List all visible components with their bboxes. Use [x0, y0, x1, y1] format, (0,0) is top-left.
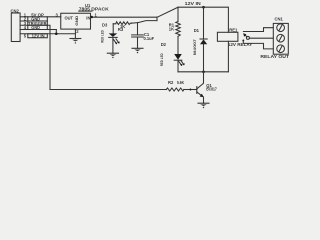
resistor R2: [166, 88, 184, 91]
terminal screw 2: [277, 34, 285, 42]
svg-text:OUT: OUT: [65, 16, 74, 21]
wire U1 GND pin: [74, 29, 76, 38]
relay contact arm arrow: [245, 35, 247, 37]
wire pole to CN1 middle: [249, 37, 273, 39]
wire NO to CN1 bottom: [243, 41, 273, 49]
svg-text:RE1: RE1: [229, 28, 238, 33]
svg-text:RED LED: RED LED: [160, 53, 164, 66]
net frame row5: [28, 34, 48, 38]
transistor Q1 BC817: [197, 72, 204, 103]
wire R2 to Q1 base: [184, 89, 191, 91]
svg-text:R2: R2: [168, 80, 174, 85]
net frame row3 TRIGGER: [28, 21, 48, 25]
svg-text:12V IN: 12V IN: [32, 33, 45, 38]
ground below Q1: [198, 103, 209, 108]
svg-text:M4007: M4007: [193, 39, 197, 55]
net frame row4: [27, 25, 29, 29]
wire U1 IN to right: [91, 16, 158, 18]
net frame row2: [27, 17, 29, 21]
node GND junction: [55, 32, 58, 35]
svg-text:D2: D2: [161, 42, 167, 47]
value underline U1: [79, 10, 92, 12]
svg-text:12V RELAY: 12V RELAY: [228, 42, 253, 47]
terminal screw 3: [277, 45, 285, 53]
wire bottom rail D2 to relay coil: [178, 71, 228, 73]
svg-text:IN: IN: [86, 15, 90, 20]
svg-text:BC817: BC817: [206, 87, 217, 92]
wire TRIGGER down: [47, 25, 50, 89]
svg-text:RELAY OUT: RELAY OUT: [260, 54, 289, 59]
node 12V junction: [202, 6, 205, 9]
relay contact pole: [246, 36, 249, 39]
resistor R3: [113, 22, 131, 25]
svg-text:CN1: CN1: [275, 16, 284, 21]
svg-text:D3: D3: [102, 22, 108, 27]
ground below D3: [107, 53, 118, 58]
svg-text:D1: D1: [194, 28, 200, 33]
relay contact NC path: [243, 28, 273, 32]
wire pin4 GND: [20, 29, 56, 31]
wire GND down from pin4: [55, 30, 57, 34]
svg-text:RED LED: RED LED: [101, 30, 105, 43]
LED D2: [174, 54, 185, 72]
wire diagonal to 12V rail: [157, 7, 178, 17]
relay RE1 coil: [217, 32, 238, 41]
wire relay coil riser: [227, 41, 229, 72]
svg-text:1K: 1K: [169, 26, 174, 31]
resistor R1: [176, 7, 180, 54]
svg-text:5.6K: 5.6K: [177, 80, 184, 85]
wire pin3 TRIGGER: [20, 24, 47, 26]
wire pin1 5V OP to U1 OUT: [20, 16, 61, 18]
connector CN1: [273, 23, 288, 54]
regulator U1 7805 box: [61, 13, 91, 29]
wire R3 lead to 12V net bottom edge: [132, 21, 158, 24]
ground below C1: [132, 48, 143, 53]
svg-text:R3: R3: [118, 27, 124, 32]
svg-text:0.1uF: 0.1uF: [144, 36, 155, 41]
LED D3: [109, 33, 120, 53]
wire bottom trigger rail: [50, 89, 166, 91]
relay contact NO dot: [242, 39, 244, 41]
node U1 IN pin dot: [90, 16, 93, 19]
svg-text:CN2: CN2: [11, 9, 20, 14]
node collector junction: [202, 71, 205, 74]
connector CN2: [11, 13, 20, 42]
svg-text:GND: GND: [31, 25, 40, 30]
svg-text:12V IN: 12V IN: [185, 1, 201, 6]
svg-text:7805 DPACK: 7805 DPACK: [79, 7, 109, 12]
ground below U1: [70, 39, 81, 44]
wire pin5 12V IN and GND rail to U1 ground: [20, 33, 75, 35]
wire R3 left lead down to D3: [112, 24, 114, 34]
wire 12V rail top: [178, 7, 228, 32]
svg-text:GND: GND: [75, 15, 79, 25]
node base arrow: [190, 88, 193, 91]
wire U1 IN net top edge: [156, 17, 158, 20]
diode D1 M4007: [200, 7, 207, 72]
capacitor C1: [132, 23, 144, 49]
terminal screw 1: [277, 24, 285, 32]
wire pin2 GND: [20, 20, 47, 22]
